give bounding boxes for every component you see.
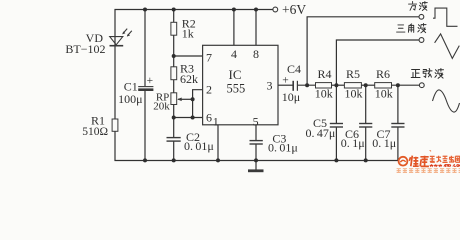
photodiode VD triangle bbox=[110, 37, 123, 45]
watermark bottom slogan row bbox=[397, 168, 460, 172]
terminal triangle-wave circle bbox=[419, 38, 424, 43]
svg-text:100μ: 100μ bbox=[118, 92, 142, 106]
wire RP wiper bbox=[178, 98, 193, 100]
svg-text:0. 47μ: 0. 47μ bbox=[306, 126, 336, 140]
svg-text:510Ω: 510Ω bbox=[82, 126, 108, 138]
svg-text:10k: 10k bbox=[375, 87, 393, 101]
svg-text:10k: 10k bbox=[345, 87, 363, 101]
svg-text:0. 1μ: 0. 1μ bbox=[372, 136, 396, 150]
potentiometer RP wiper arrowhead bbox=[177, 98, 182, 102]
resistor R4 body bbox=[316, 83, 332, 88]
svg-text:5: 5 bbox=[253, 114, 259, 128]
wire triangle-wave tap bbox=[336, 40, 419, 85]
potentiometer RP body bbox=[171, 93, 177, 105]
svg-text:20k: 20k bbox=[153, 101, 170, 113]
capacitor C2 plates bbox=[167, 138, 181, 142]
svg-text:1k: 1k bbox=[182, 27, 194, 41]
node rail-ground bbox=[254, 158, 258, 162]
wire pin1 to rail bbox=[217, 125, 219, 161]
node rail-pin4 bbox=[232, 8, 236, 12]
wire bottom 0V rail bbox=[115, 160, 399, 162]
capacitor C5 plates bbox=[330, 124, 343, 128]
node rail-C1 bbox=[143, 8, 147, 12]
svg-text:0. 1μ: 0. 1μ bbox=[341, 136, 365, 150]
photodiode VD cathode bar bbox=[110, 45, 124, 47]
terminal +6V circle bbox=[273, 7, 278, 12]
wire R5 to R6 bbox=[361, 84, 374, 86]
CJK label fang-bo (square wave) bbox=[409, 2, 428, 11]
wire pin8 from rail to IC top bbox=[255, 10, 257, 46]
svg-text:555: 555 bbox=[227, 81, 246, 95]
wire C1 branch bbox=[144, 10, 146, 162]
square wave icon bbox=[433, 8, 458, 26]
capacitor C6 plates bbox=[359, 124, 372, 128]
wire C5 branch bbox=[335, 85, 337, 161]
svg-text:BT−102: BT−102 bbox=[65, 42, 105, 56]
svg-text:10μ: 10μ bbox=[282, 90, 300, 104]
wire R2-R3-RP chain bbox=[173, 10, 175, 162]
svg-text:0. 01μ: 0. 01μ bbox=[268, 141, 298, 155]
svg-text:+: + bbox=[282, 75, 289, 87]
watermark weiku characters bbox=[409, 156, 429, 167]
node R5-R6-C6 bbox=[364, 83, 368, 87]
terminal sine-wave circle bbox=[419, 83, 424, 88]
sine wave icon bbox=[433, 90, 460, 112]
wire C7 branch bbox=[397, 85, 399, 161]
IC U1 555 box bbox=[203, 45, 278, 125]
node rail-pin1 bbox=[216, 158, 220, 162]
svg-text:1: 1 bbox=[213, 114, 219, 128]
wire R6 to sine terminal bbox=[392, 84, 420, 86]
node pin6-vert bbox=[191, 116, 195, 120]
capacitor C1 plates (electrolytic) bbox=[138, 87, 153, 90]
watermark www.dzsc.com bbox=[430, 164, 460, 166]
node rail-pin8 bbox=[254, 8, 258, 12]
resistor R5 body bbox=[344, 83, 361, 88]
node rail-C5 bbox=[334, 158, 338, 162]
resistor R2 body bbox=[171, 22, 177, 35]
wire top +6V rail bbox=[115, 10, 273, 46]
wire pin6 bbox=[174, 117, 203, 119]
node C4-R4 square tap bbox=[305, 83, 309, 87]
node R2-R3-pin7 bbox=[172, 54, 176, 58]
svg-text:4: 4 bbox=[231, 47, 237, 61]
wire square-wave tap bbox=[307, 17, 419, 85]
svg-text:7: 7 bbox=[206, 50, 212, 64]
triangle wave icon bbox=[435, 34, 460, 59]
svg-text:62k: 62k bbox=[180, 72, 198, 86]
resistor R6 body bbox=[375, 83, 392, 88]
svg-text:+: + bbox=[147, 75, 154, 87]
capacitor C7 plates bbox=[391, 124, 404, 128]
wire C6 branch bbox=[365, 85, 367, 161]
svg-text:3: 3 bbox=[267, 79, 273, 93]
CJK label san-jiao-bo (triangle wave) bbox=[397, 24, 426, 33]
svg-text:2: 2 bbox=[206, 83, 212, 97]
wire R4 to R5 bbox=[332, 84, 345, 86]
svg-text:IC: IC bbox=[229, 67, 242, 82]
watermark trademark tick bbox=[429, 150, 431, 152]
ground bar bbox=[248, 169, 264, 172]
resistor R3 body bbox=[171, 67, 177, 80]
wire C4 to R4 bbox=[298, 84, 316, 86]
node rail-R2 bbox=[172, 8, 176, 12]
wire pin3 to C4 bbox=[278, 84, 293, 86]
watermark site name small chars bbox=[430, 156, 460, 163]
svg-text:+6V: +6V bbox=[282, 2, 306, 17]
node RP-pin6 bbox=[172, 116, 176, 120]
resistor R1 body bbox=[112, 119, 118, 131]
CJK label zheng-xian-bo (sine wave) bbox=[411, 69, 443, 79]
wire pin4 from rail to IC top bbox=[233, 10, 235, 46]
ground stub bbox=[255, 161, 257, 170]
node rail-C1-bottom bbox=[143, 158, 147, 162]
svg-text:0. 01μ: 0. 01μ bbox=[184, 139, 214, 153]
watermark logo circle bbox=[399, 157, 408, 166]
wire pin2 bbox=[193, 90, 203, 118]
svg-text:R6: R6 bbox=[376, 67, 390, 81]
svg-text:10k: 10k bbox=[315, 87, 333, 101]
watermark weiku logo group bbox=[397, 150, 460, 172]
svg-text:R4: R4 bbox=[318, 67, 332, 81]
svg-text:C4: C4 bbox=[287, 62, 301, 76]
node R6-C7 bbox=[396, 83, 400, 87]
svg-text:6: 6 bbox=[206, 111, 212, 125]
node rail-C2 bbox=[172, 158, 176, 162]
wire pin5 / C3 branch bbox=[255, 125, 257, 161]
capacitor C3 plates bbox=[250, 141, 263, 144]
wire pin7 bbox=[174, 55, 203, 57]
photodiode light arrow 1 bbox=[122, 29, 132, 37]
svg-text:8: 8 bbox=[253, 47, 259, 61]
terminal square-wave circle bbox=[419, 14, 424, 19]
photodiode light arrow 2 bbox=[127, 31, 131, 36]
wire LED branch lower / R1 to bottom rail bbox=[114, 46, 116, 161]
node wiper-pin2 bbox=[191, 97, 195, 101]
node R4-R5 triangle tap bbox=[334, 83, 338, 87]
capacitor C4 plates (electrolytic) bbox=[293, 81, 297, 91]
svg-text:R5: R5 bbox=[346, 67, 360, 81]
node rail-C6 bbox=[364, 158, 368, 162]
